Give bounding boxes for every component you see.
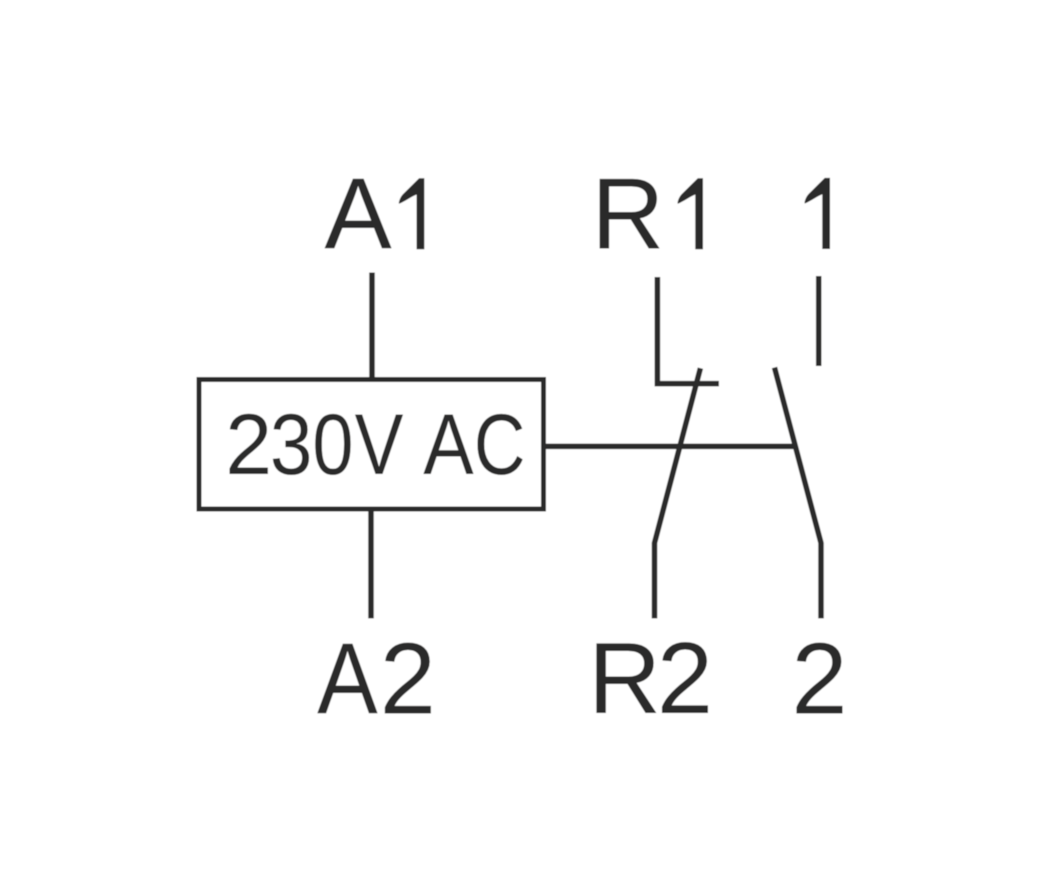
wire R1 fixed contact L-stop: [657, 277, 719, 384]
coil box 230V AC: [199, 380, 544, 510]
wire terminal 1 lead: [816, 276, 822, 366]
svg-text:2: 2: [225, 397, 272, 493]
svg-text:C: C: [474, 396, 526, 493]
svg-text:R: R: [588, 623, 661, 735]
svg-text:0: 0: [312, 396, 353, 493]
terminal label A2: [317, 623, 436, 735]
terminal label A1: [324, 158, 424, 270]
svg-text:2: 2: [657, 623, 713, 735]
svg-text:2: 2: [380, 624, 436, 736]
wire A1 lead: [369, 273, 375, 380]
svg-text:3: 3: [270, 397, 313, 493]
coil label 230V AC: [225, 397, 272, 493]
terminal label R2: [588, 623, 713, 735]
wire NC contact blade R2: [655, 368, 701, 618]
wire actuation link: [546, 444, 795, 450]
svg-text:A: A: [423, 398, 473, 494]
svg-text:2: 2: [791, 624, 847, 736]
svg-text:V: V: [355, 397, 404, 493]
wire A2 lead: [368, 509, 374, 618]
wire NO contact blade 2: [775, 368, 822, 619]
svg-text:A: A: [317, 623, 378, 735]
terminal label R1: [591, 158, 703, 270]
svg-text:A: A: [324, 158, 392, 270]
svg-text:R: R: [591, 158, 664, 270]
terminal label 1: [805, 178, 831, 249]
